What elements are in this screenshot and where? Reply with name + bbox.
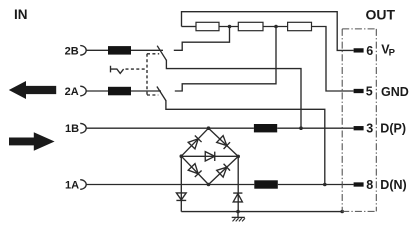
thermal disconnect symbol [111, 66, 124, 74]
diode bridge edge top-right [209, 128, 239, 156]
wire 2A fuse to switch [131, 90, 161, 92]
diode D3 (left to bottom) [188, 164, 201, 177]
dashed stub to 2B blade [147, 53, 159, 55]
svg-text:D(N): D(N) [380, 178, 406, 192]
wire R2 to tap2 [263, 26, 288, 28]
wire 2B input [86, 49, 108, 51]
node bridge right vertex [236, 155, 240, 159]
node ground rail / D7 [236, 210, 240, 214]
diode bridge edge bottom-left [181, 156, 208, 184]
connector 1B [80, 123, 86, 133]
svg-text:D(P): D(P) [380, 122, 406, 136]
node tap2 (R2/R3 junction) [274, 25, 278, 29]
boundary dash-dot box (device outline) [342, 29, 376, 212]
node bridge bottom vertex [207, 183, 211, 187]
resistor R1 [196, 22, 219, 30]
wire 1A fuse to terminal 8 [278, 184, 354, 186]
connector 2B [80, 46, 86, 56]
node 2A-output joins 1A [323, 183, 327, 187]
fuse F3 (1B) [254, 124, 277, 132]
diode bridge edge bottom-right [209, 156, 239, 184]
svg-text:6: 6 [366, 44, 373, 58]
diode D6 (left suppressor, anode up) [176, 193, 186, 201]
node tap1 (R1/R2 junction) [228, 25, 232, 29]
svg-text:1B: 1B [65, 123, 79, 135]
arrow right (line direction) [9, 132, 55, 151]
terminal 6 pad [354, 48, 364, 52]
svg-text:1A: 1A [65, 179, 79, 191]
fuse F1 (2B) [108, 46, 131, 55]
wire bridge right vertex to ground rail [237, 156, 239, 211]
dashed linkage thermal to coupling bar [126, 68, 148, 70]
svg-text:P: P [389, 48, 396, 59]
svg-text:2A: 2A [65, 86, 79, 98]
dashed mechanical coupling bar [146, 54, 148, 95]
switch blade 2A [157, 87, 166, 101]
wire 2A input [86, 90, 108, 92]
dashed stub to 2A blade [147, 94, 158, 96]
node bridge left vertex [180, 154, 184, 158]
wire 2B upper contact to R1-R2 tap [174, 27, 230, 51]
switch blade 2B [157, 46, 166, 61]
diode bridge edge top-left [181, 128, 208, 156]
svg-text:5: 5 [366, 85, 373, 99]
node 2B-output joins 1B [299, 126, 303, 130]
wire bridge left vertex to ground rail [180, 156, 182, 211]
wire 1A input [86, 184, 254, 186]
fuse F4 (1A) [254, 180, 277, 188]
wire 1B fuse to terminal 3 [277, 127, 353, 129]
node ground rail at boundary [340, 210, 344, 214]
wire 2A switch output rail [166, 100, 325, 184]
terminal 8 pad [354, 182, 364, 186]
diode D4 (bottom to right) [217, 164, 230, 177]
terminal 5 pad [354, 89, 364, 93]
wire 1B input [86, 127, 254, 129]
wire 2B switch output rail [166, 60, 301, 128]
svg-text:GND: GND [381, 85, 409, 99]
wire ground rail [181, 211, 342, 213]
terminal 3 pad [354, 126, 364, 130]
diode D1 (left to top) [188, 136, 201, 149]
wire Vp top loop [182, 12, 354, 51]
svg-text:8: 8 [366, 178, 373, 192]
arrow left (surge discharge direction) [9, 81, 56, 99]
wire resistor row left [182, 26, 197, 28]
diode D7 (right suppressor, cathode up) [233, 193, 242, 202]
wire bridge center [181, 155, 238, 157]
node bridge top vertex [207, 126, 211, 130]
wire 2B fuse to switch [131, 49, 163, 51]
connector 2A [80, 86, 86, 96]
svg-text:OUT: OUT [366, 6, 396, 22]
diode D5 (bridge center) [205, 152, 215, 161]
svg-text:IN: IN [14, 7, 28, 22]
svg-text:3: 3 [366, 122, 373, 136]
diode D2 (top to right) [217, 136, 230, 149]
connector 1A [80, 180, 86, 190]
wire R1 to tap1 [219, 26, 238, 28]
resistor R3 [288, 22, 312, 30]
wire 2A upper contact to R2-R3 tap [175, 27, 276, 92]
svg-text:2B: 2B [65, 45, 79, 57]
wire R3 to GND terminal [312, 27, 354, 92]
ground (protective earth) [232, 212, 245, 222]
fuse F2 (2A) [108, 87, 131, 96]
resistor R2 [238, 22, 263, 30]
